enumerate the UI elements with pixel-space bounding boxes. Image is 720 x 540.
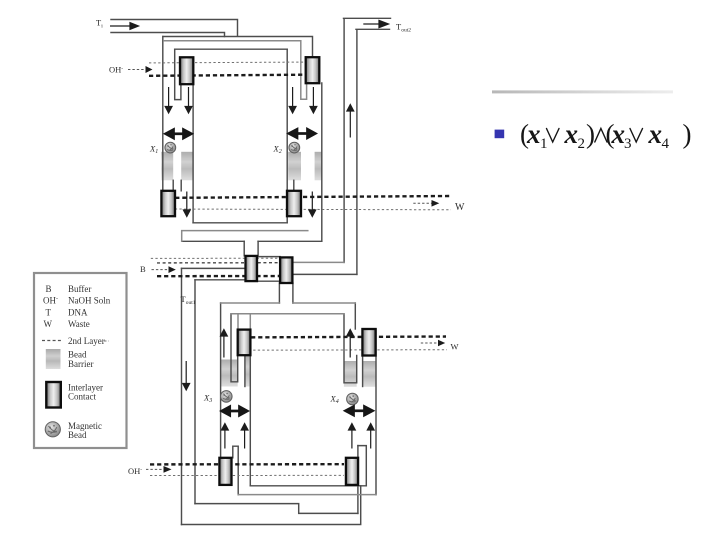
svg-text:OH-: OH- (128, 466, 142, 476)
svg-text:x: x (564, 119, 579, 149)
svg-text:Buffer: Buffer (68, 284, 91, 294)
svg-text:1: 1 (540, 136, 548, 152)
svg-text:W: W (451, 342, 459, 352)
svg-text:T: T (46, 307, 52, 317)
svg-text:OH-: OH- (43, 296, 58, 306)
svg-text:Ti: Ti (96, 18, 103, 30)
svg-text:x: x (526, 119, 541, 149)
svg-text:B: B (140, 264, 146, 274)
svg-text:W: W (44, 319, 53, 329)
svg-text:2: 2 (578, 136, 586, 152)
svg-text:x: x (611, 119, 626, 149)
svg-text:Tout2: Tout2 (396, 22, 411, 34)
svg-text:X2: X2 (273, 144, 282, 156)
svg-text:OH-: OH- (109, 65, 123, 75)
svg-text:): ) (683, 119, 692, 149)
svg-text:3: 3 (624, 136, 632, 152)
svg-text:NaOH Soln: NaOH Soln (68, 296, 111, 306)
svg-text:2nd Layer: 2nd Layer (68, 336, 105, 346)
svg-text:Tout1: Tout1 (181, 294, 196, 306)
svg-text:Bead: Bead (68, 430, 87, 440)
svg-text:4: 4 (662, 136, 670, 152)
svg-text:B: B (46, 284, 52, 294)
svg-text:X4: X4 (330, 394, 339, 406)
svg-text:Waste: Waste (68, 319, 90, 329)
svg-text:Contact: Contact (68, 392, 96, 402)
svg-text:): ) (586, 119, 595, 149)
svg-text:DNA: DNA (68, 307, 88, 317)
svg-text:X1: X1 (149, 144, 158, 156)
svg-text:Barrier: Barrier (68, 359, 93, 369)
svg-text:x: x (648, 119, 663, 149)
svg-text:X3: X3 (203, 393, 212, 405)
svg-text:W: W (455, 202, 465, 213)
